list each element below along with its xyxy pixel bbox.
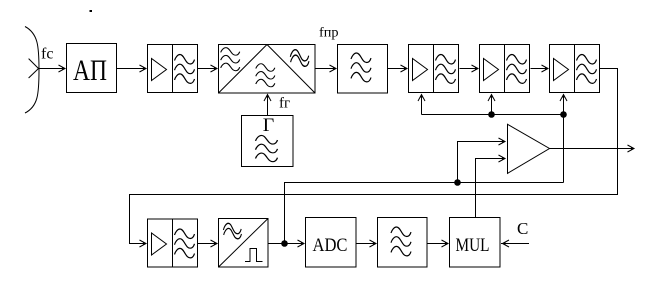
svg-text:C: C [517,219,528,238]
svg-text:АП: АП [73,55,107,87]
svg-text:fпр: fпр [319,26,339,41]
svg-text:fг: fг [279,96,290,112]
svg-text:Г: Г [263,115,275,136]
svg-text:fc: fc [41,46,53,63]
svg-text:MUL: MUL [456,235,490,256]
svg-text:ADC: ADC [313,235,348,256]
